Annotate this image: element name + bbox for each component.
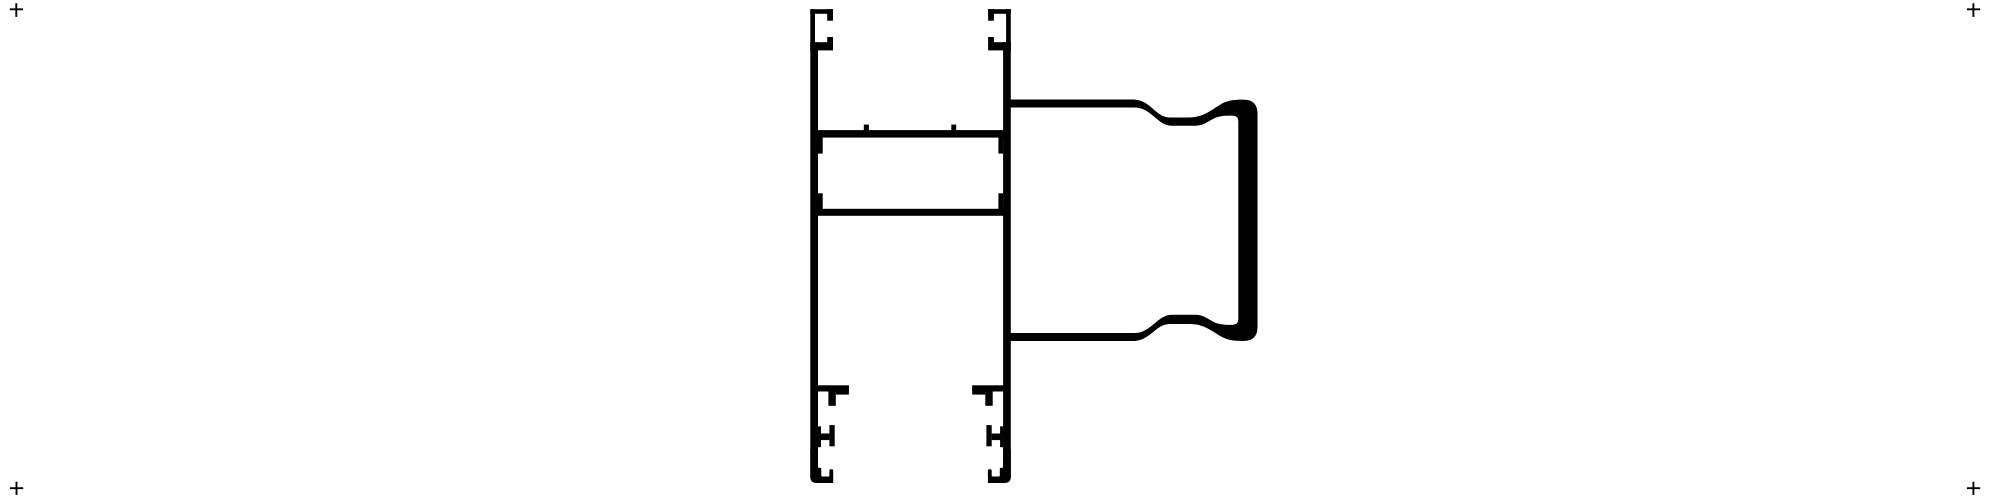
screw-channel lower nub bbox=[827, 37, 833, 42]
tooth B bridge bbox=[818, 434, 830, 441]
web upper bbox=[812, 130, 1004, 138]
wall main segment bbox=[810, 42, 818, 478]
box inner step upper bbox=[818, 136, 823, 154]
registration cross bottom-left bbox=[10, 482, 23, 495]
wall thin upper segment bbox=[810, 9, 815, 50]
screw-channel top bar bbox=[810, 9, 833, 14]
bottom arm lip bbox=[836, 392, 849, 395]
foot hook bbox=[810, 450, 833, 483]
registration cross bottom-right bbox=[1967, 482, 1980, 495]
left wall group bbox=[810, 9, 849, 483]
box inner step lower bbox=[818, 193, 823, 209]
screw-channel upper nub bbox=[827, 9, 833, 21]
tooth B bar bbox=[829, 425, 834, 446]
gasket clip outline bbox=[1009, 100, 1258, 342]
tooth A bbox=[828, 392, 835, 406]
registration cross top-right bbox=[1967, 3, 1980, 17]
bottom arm bbox=[814, 385, 849, 391]
screw-channel bottom bar bbox=[810, 42, 833, 50]
web lower bbox=[812, 209, 1004, 216]
right wall group (mirror of left) bbox=[972, 9, 1011, 483]
web upper tooth right bbox=[951, 125, 956, 132]
web upper tooth left bbox=[864, 125, 869, 132]
registration cross top-left bbox=[10, 3, 23, 17]
wall widening at tooth B bbox=[818, 426, 821, 447]
